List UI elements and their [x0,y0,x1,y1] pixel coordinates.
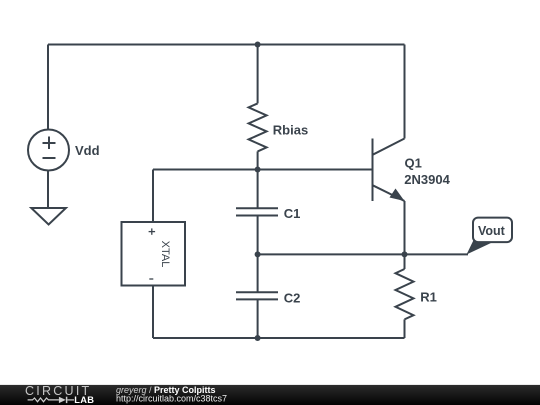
svg-text:C2: C2 [284,290,301,305]
wire Rbias top [257,45,259,104]
wire XTAL top [152,170,154,223]
node junction mid rail [255,251,261,257]
footer bar [0,384,540,405]
svg-text:C1: C1 [284,206,301,221]
CircuitLab logo diode symbol [59,397,66,403]
wire bottom rail [153,337,405,339]
wire base rail [153,169,373,171]
wire collector [404,45,406,139]
wire C1 top [257,170,259,209]
svg-text:Vout: Vout [478,224,506,238]
svg-text:Vdd: Vdd [75,143,100,158]
voltage source Vdd [28,130,69,171]
svg-text:http://circuitlab.com/c38tcs7: http://circuitlab.com/c38tcs7 [116,394,227,404]
wire C2 bottom [257,299,259,338]
flag Vout [467,218,513,255]
wire Vdd top [47,45,49,130]
capacitor C1 [236,208,278,215]
wire C1 bottom [257,216,259,255]
wire emitter [404,201,406,254]
transistor Q1 [373,139,405,202]
wire R1 top [404,254,406,269]
svg-text:Rbias: Rbias [273,123,308,138]
capacitor C2 [236,292,278,299]
node junction bottom rail [255,335,261,341]
svg-text:2N3904: 2N3904 [404,172,450,187]
wire XTAL bottom [152,286,154,339]
wire top rail [48,44,405,46]
wire Vdd bottom [47,171,49,209]
wire Rbias bottom [257,151,259,169]
node junction top rail [255,42,261,48]
footer background bar [0,385,540,405]
node junction output [402,251,408,257]
CircuitLab logo resistor symbol [28,398,59,402]
ground [31,208,66,225]
svg-text:XTAL: XTAL [159,241,171,268]
crystal XTAL [122,222,186,286]
svg-text:Q1: Q1 [405,155,422,170]
wire mid rail to Vout [258,253,468,255]
node junction base rail [255,167,261,173]
wire C2 top [257,254,259,292]
svg-text:LAB: LAB [74,395,94,405]
wire R1 bottom [404,319,406,338]
resistor Rbias [249,103,267,151]
resistor R1 [396,269,414,319]
svg-text:R1: R1 [420,289,437,304]
